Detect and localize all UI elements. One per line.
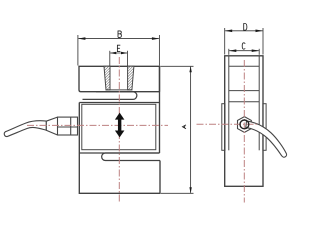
centerline vertical (side view) xyxy=(243,60,245,203)
dimension D arrowheads xyxy=(225,30,263,33)
load direction double arrow xyxy=(115,113,125,138)
bottom block xyxy=(79,153,160,193)
label A (rotated) xyxy=(183,125,187,129)
upper slot (open left, rounded right end) xyxy=(83,92,137,100)
cable (front view) xyxy=(4,121,46,137)
centerline vertical (front view) xyxy=(118,57,120,203)
dimension D xyxy=(225,28,263,55)
side body inner verticals xyxy=(229,56,259,151)
label E xyxy=(117,45,120,51)
hex boss xyxy=(238,117,252,133)
tapped hole right wall (hatched) xyxy=(128,66,134,90)
top block xyxy=(79,66,160,91)
middle block inner (pocket edge) xyxy=(82,104,156,149)
centerline horizontal (side view) xyxy=(197,123,259,125)
hole bottom line xyxy=(106,89,133,91)
cable (side view) xyxy=(246,121,287,157)
dimension B arrowheads xyxy=(78,37,159,40)
lower slot (open right, rounded left end) xyxy=(102,153,160,161)
centerline horizontal (front view) xyxy=(27,124,168,126)
dimension B xyxy=(78,35,159,66)
cable gland (left connector) xyxy=(46,117,77,135)
dimension E xyxy=(110,51,128,66)
label C xyxy=(242,43,245,49)
label D xyxy=(243,24,247,31)
dimension A xyxy=(161,66,194,193)
side horizontal lines xyxy=(229,66,259,102)
tapped hole left wall (hatched) xyxy=(104,66,110,90)
dimension C xyxy=(229,49,259,55)
dimension C arrowheads xyxy=(229,49,259,52)
middle block outer xyxy=(79,66,159,153)
dimension A arrowheads xyxy=(189,66,191,193)
label B xyxy=(118,31,121,38)
left ear plate xyxy=(222,104,225,151)
cable entry circle xyxy=(240,120,249,129)
dimension E arrowheads xyxy=(110,52,128,54)
right ear plate xyxy=(263,104,266,151)
side body outer rect xyxy=(225,56,263,187)
